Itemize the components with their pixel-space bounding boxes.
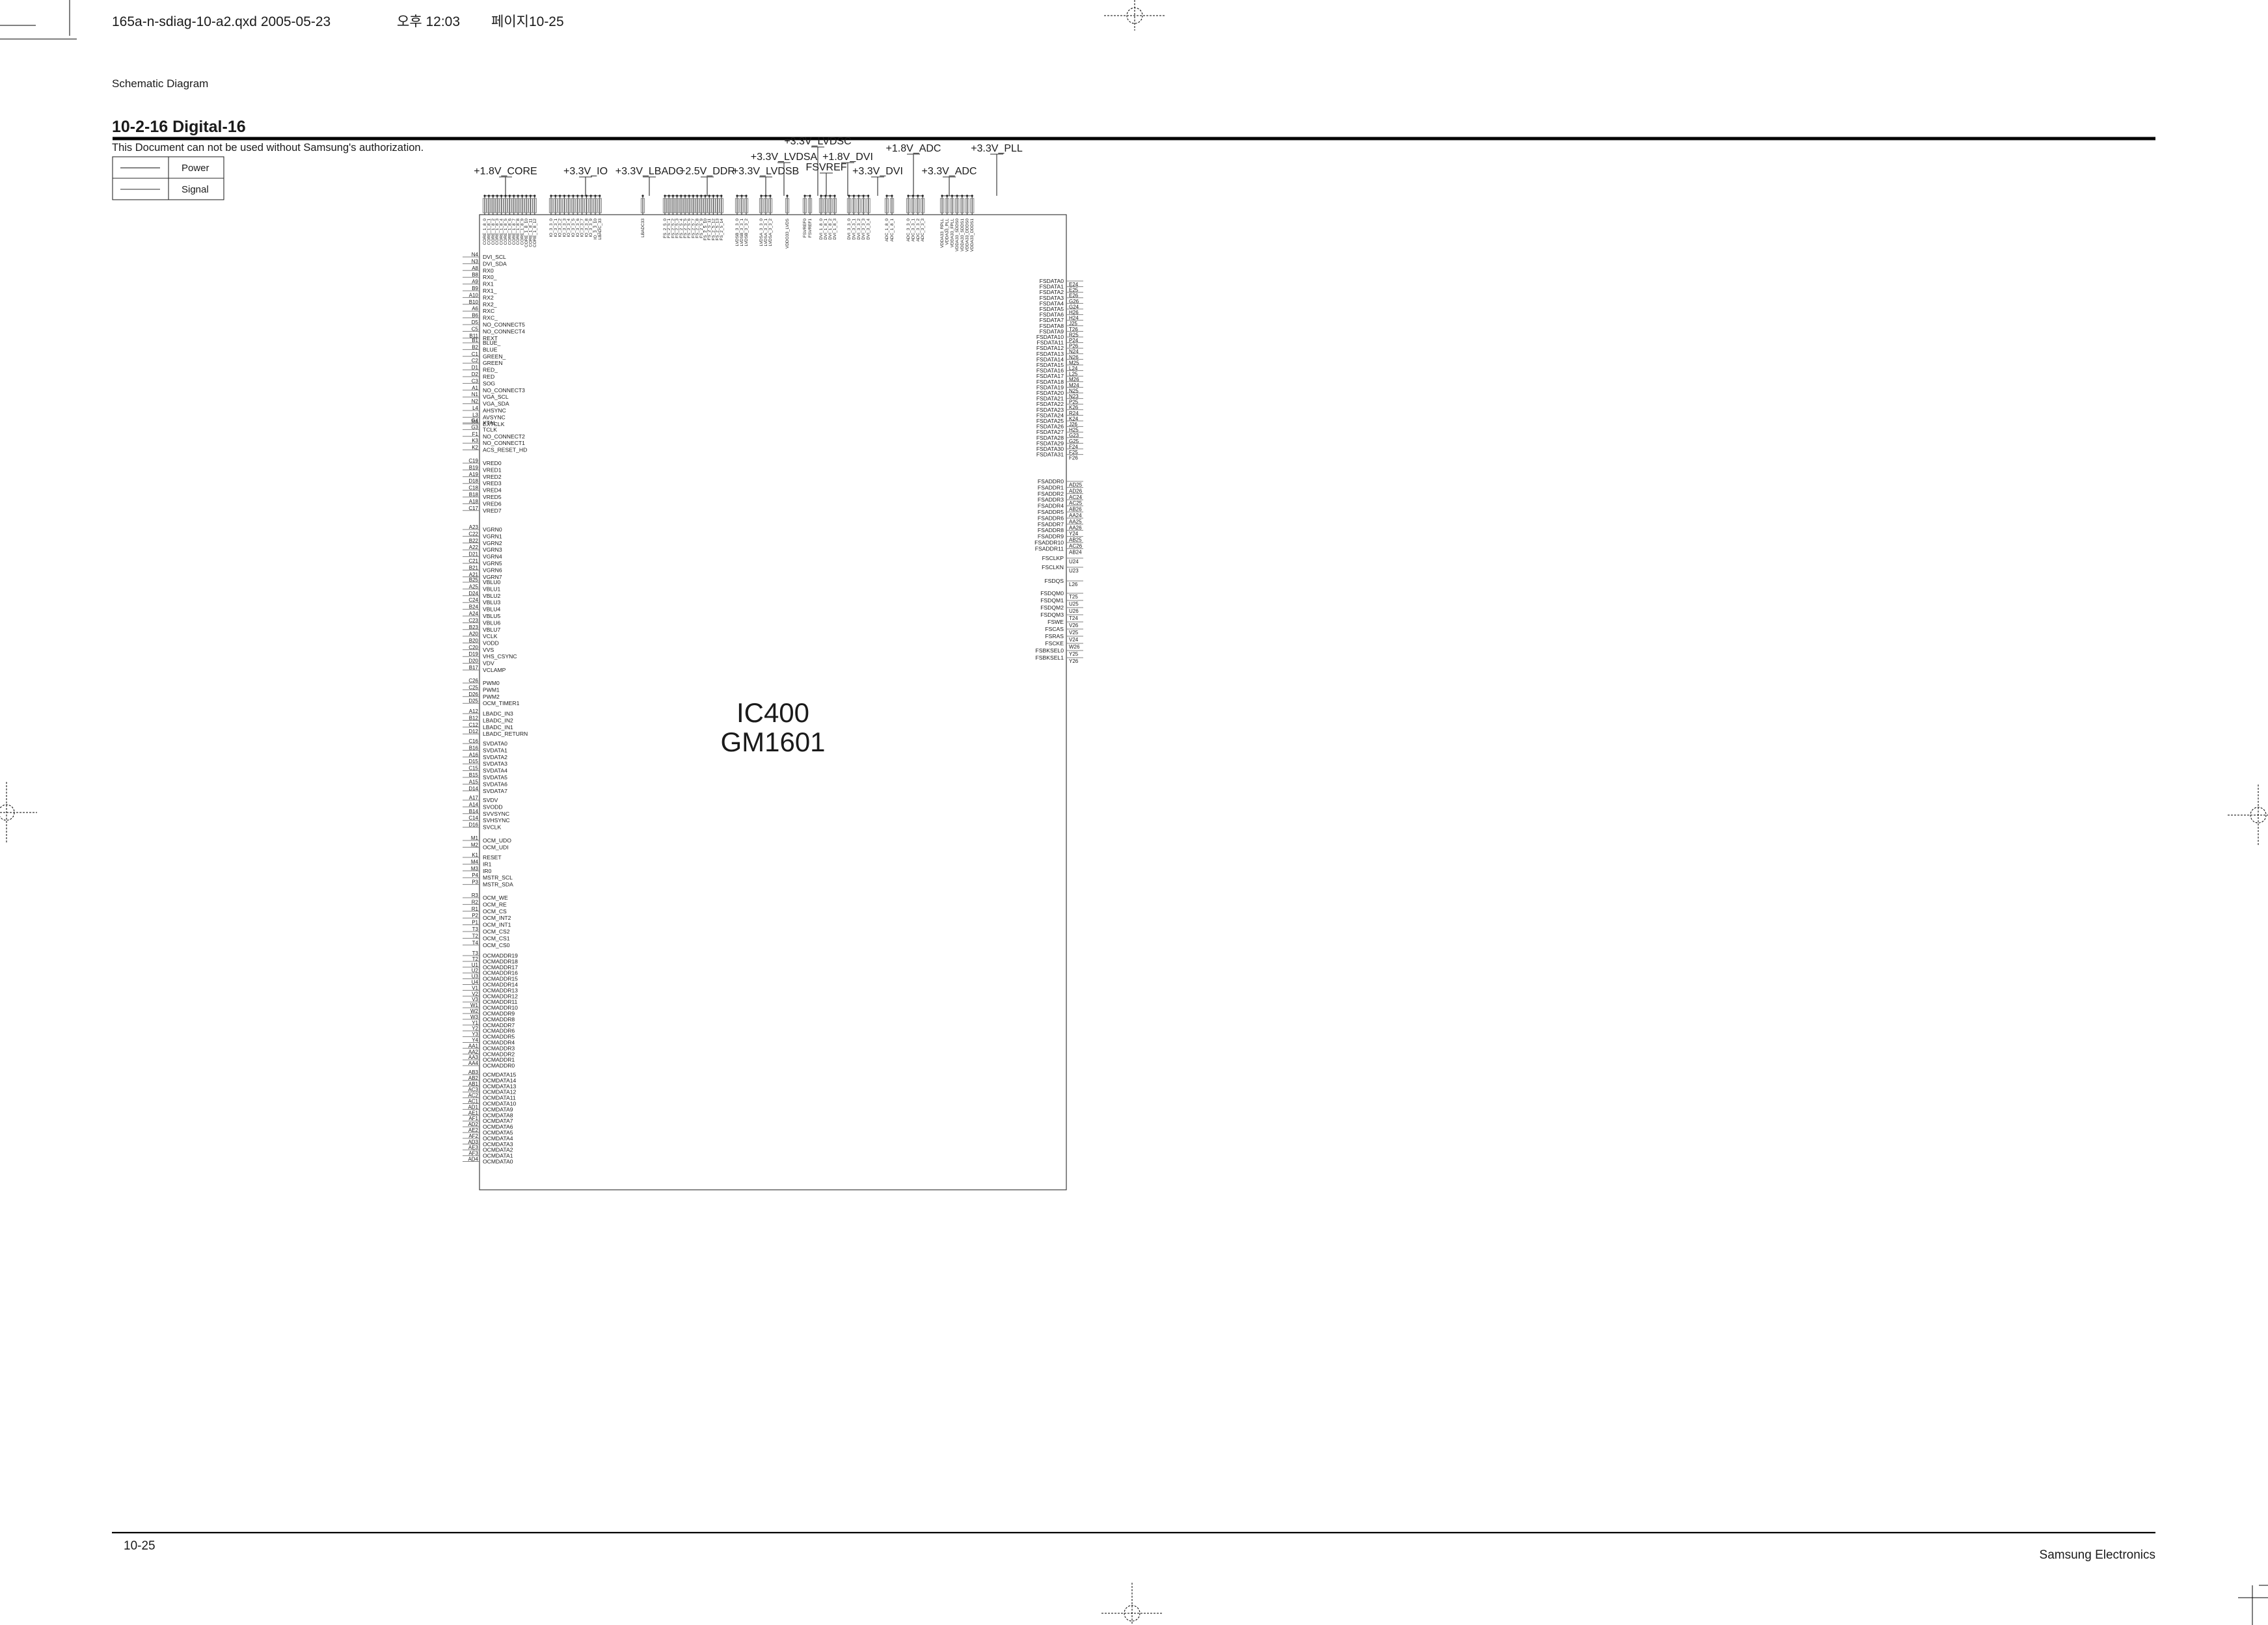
IC400 left-side pins: names + pin number boxes [463,252,528,1165]
svg-text:RX0_: RX0_ [483,274,497,280]
pin names for +2.5V_DDR group (rotated) [663,219,724,241]
op-amp U? main IC IC400 GM1601 body [479,215,1066,1190]
svg-text:FSBKSEL1: FSBKSEL1 [1036,654,1064,661]
svg-text:AA25: AA25 [1069,518,1082,524]
svg-text:V24: V24 [1069,637,1079,643]
svg-text:+1.8V_ADC: +1.8V_ADC [886,143,941,154]
svg-text:FSDQM1: FSDQM1 [1040,597,1064,604]
svg-text:RX2: RX2 [483,294,494,301]
svg-text:RED: RED [483,373,494,380]
power net +3.3V_DVI (top rail) [847,166,903,215]
svg-text:AC26: AC26 [1069,543,1083,549]
power net FSVREF (top rail) [803,162,846,215]
pin names for +3.3V_PLL group (rotated) [940,219,975,252]
svg-text:RESET: RESET [483,854,502,861]
svg-text:OCM_CS1: OCM_CS1 [483,935,510,941]
svg-text:IR1: IR1 [483,861,492,867]
svg-text:OCM_INT1: OCM_INT1 [483,922,511,928]
svg-text:LVDSB_3_3_1: LVDSB_3_3_1 [740,219,744,247]
svg-text:VBLU0: VBLU0 [483,579,500,585]
svg-text:LVDSA_3_3_2: LVDSA_3_3_2 [768,219,773,247]
svg-text:FSCAS: FSCAS [1045,626,1064,632]
svg-text:오후 12:03: 오후 12:03 [397,14,460,29]
svg-text:V26: V26 [1069,623,1079,628]
svg-text:+1.8V_CORE: +1.8V_CORE [474,166,537,177]
svg-text:FSCKE: FSCKE [1045,640,1064,647]
svg-text:OCM_CS0: OCM_CS0 [483,942,510,948]
svg-text:SVDV: SVDV [483,797,498,803]
svg-text:NO_CONNECT1: NO_CONNECT1 [483,440,525,446]
svg-text:ADC_1_8_0: ADC_1_8_0 [885,219,889,242]
svg-text:OCMADDR0: OCMADDR0 [483,1062,515,1069]
svg-text:TCLK: TCLK [483,426,497,433]
svg-text:XTAL: XTAL [483,420,496,426]
svg-text:DVI_1_8_2: DVI_1_8_2 [828,219,833,240]
svg-text:VDDA33_RPLL: VDDA33_RPLL [940,219,945,248]
svg-text:SVDATA7: SVDATA7 [483,788,507,794]
svg-text:FSWE: FSWE [1047,619,1064,625]
svg-text:RXC: RXC [483,308,494,314]
power net +3.3V_PLL (top rail) [940,143,1023,215]
power net +1.8V_ADC (top rail) [885,143,941,215]
svg-text:VGRN5: VGRN5 [483,560,502,567]
pin names for +3.3V_LBADC group (rotated) [641,219,645,237]
svg-text:GM1601: GM1601 [720,727,825,757]
svg-text:VRED7: VRED7 [483,507,502,514]
svg-text:L26: L26 [1069,582,1078,587]
svg-text:OCM_RE: OCM_RE [483,901,507,907]
svg-text:AD25: AD25 [1069,482,1083,488]
svg-text:VRED4: VRED4 [483,487,502,494]
svg-text:AHSYNC: AHSYNC [483,407,506,414]
svg-text:VBLU6: VBLU6 [483,619,500,626]
svg-text:+3.3V_LBADC: +3.3V_LBADC [615,166,684,177]
svg-text:OCM_UDI: OCM_UDI [483,844,509,850]
svg-text:VGA_SCL: VGA_SCL [483,394,509,400]
svg-text:AB24: AB24 [1069,549,1082,555]
power net +3.3V_LBADC (top rail) [615,166,684,215]
svg-text:+3.3V_LVDSA: +3.3V_LVDSA [751,152,818,163]
svg-text:VRED3: VRED3 [483,480,502,487]
svg-text:T24: T24 [1069,615,1078,621]
svg-text:ACS_RESET_HD: ACS_RESET_HD [483,447,527,453]
svg-text:VRED6: VRED6 [483,500,502,507]
svg-text:NO_CONNECT4: NO_CONNECT4 [483,328,525,334]
svg-text:RX2_: RX2_ [483,301,497,308]
svg-text:CORE_1_8_12: CORE_1_8_12 [533,219,537,247]
svg-text:FSRAS: FSRAS [1045,633,1064,639]
svg-text:VODD: VODD [483,639,499,646]
svg-text:VHS_CSYNC: VHS_CSYNC [483,653,517,660]
svg-text:PWM1: PWM1 [483,686,500,693]
svg-text:+3.3V_LVDSC: +3.3V_LVDSC [784,136,851,147]
power net +3.3V_LVDSA (top rail) [751,152,818,215]
svg-text:ADC_3_3_2: ADC_3_3_2 [916,219,921,242]
svg-text:OCMDATA0: OCMDATA0 [483,1159,513,1165]
svg-text:VRED1: VRED1 [483,466,502,473]
power net +3.3V_ADC (top rail) [906,166,977,215]
pin names for +3.3V_LVDSB group (rotated) [735,219,749,247]
pin names for +1.8V_DVI group (rotated) [819,219,837,240]
svg-text:PWM2: PWM2 [483,693,500,700]
svg-text:VRED5: VRED5 [483,494,502,500]
svg-text:LBADC33: LBADC33 [641,219,645,237]
svg-text:FSADDR11: FSADDR11 [1035,545,1064,552]
svg-text:+3.3V_DVI: +3.3V_DVI [852,166,903,177]
svg-text:W26: W26 [1069,644,1080,650]
svg-text:Signal: Signal [182,184,209,195]
svg-text:Samsung Electronics: Samsung Electronics [2040,1548,2155,1562]
svg-text:U23: U23 [1069,568,1079,574]
svg-text:VBLU1: VBLU1 [483,585,500,592]
svg-text:AC24: AC24 [1069,494,1083,500]
crop mark top-center [1104,0,1165,31]
svg-text:GREEN_: GREEN_ [483,353,506,360]
power net +1.8V_CORE (top rail) [474,166,537,215]
svg-text:U24: U24 [1069,559,1079,565]
svg-text:SVDATA6: SVDATA6 [483,781,507,787]
svg-text:VVS: VVS [483,647,494,653]
svg-text:RXC_: RXC_ [483,315,498,321]
svg-text:DVI_1_8_0: DVI_1_8_0 [819,219,824,240]
svg-text:OCM_WE: OCM_WE [483,894,508,901]
svg-text:VGRN4: VGRN4 [483,554,502,560]
svg-text:AB26: AB26 [1069,507,1082,513]
svg-text:10-25: 10-25 [124,1539,155,1553]
svg-text:LVDSA_3_3_1: LVDSA_3_3_1 [764,219,768,247]
crop mark top-left [0,0,77,39]
svg-text:AA26: AA26 [1069,525,1082,531]
crop mark bottom-right [2238,1585,2268,1625]
svg-text:FSDQS: FSDQS [1044,578,1064,584]
svg-text:VGRN0: VGRN0 [483,526,502,533]
svg-text:T25: T25 [1069,594,1078,600]
svg-text:DVI_3_3_2: DVI_3_3_2 [857,219,861,240]
svg-text:FSDQM0: FSDQM0 [1040,590,1064,597]
svg-text:LBADC_IN2: LBADC_IN2 [483,717,513,723]
svg-text:U25: U25 [1069,601,1079,607]
pin names for +3.3V_DVI group (rotated) [847,219,871,240]
svg-text:SOG: SOG [483,380,495,386]
power net +2.5V_DDR (top rail) [663,166,735,215]
svg-text:RX0: RX0 [483,267,494,274]
svg-text:F26: F26 [1069,455,1078,461]
svg-text:This Document can not be used: This Document can not be used without Sa… [112,142,424,154]
svg-text:FSDQM2: FSDQM2 [1040,604,1064,611]
svg-text:V25: V25 [1069,630,1079,636]
svg-text:DVI_3_3_4: DVI_3_3_4 [867,219,871,240]
svg-text:DVI_3_3_3: DVI_3_3_3 [861,219,866,240]
svg-text:VBLU4: VBLU4 [483,606,500,613]
svg-text:LBADC_IN1: LBADC_IN1 [483,724,513,731]
svg-text:SVDATA3: SVDATA3 [483,760,507,767]
svg-text:Y26: Y26 [1069,658,1079,664]
svg-text:IR0: IR0 [483,868,492,874]
svg-text:Y25: Y25 [1069,651,1079,657]
crop mark right-center [2228,785,2268,846]
pin names for +3.3V_IO group (rotated) [549,219,602,240]
svg-text:SVHSYNC: SVHSYNC [483,817,510,824]
power net +3.3V_IO (top rail) [549,166,608,215]
svg-text:RX1: RX1 [483,281,494,288]
svg-text:VGRN2: VGRN2 [483,540,502,546]
svg-text:ADC_3_3_3: ADC_3_3_3 [921,219,925,242]
svg-text:+3.3V_ADC: +3.3V_ADC [922,166,977,177]
svg-text:VDDA33_SDDS0: VDDA33_SDDS0 [955,219,960,252]
svg-text:Y24: Y24 [1069,531,1079,537]
svg-text:LBADC_IN3: LBADC_IN3 [483,710,513,717]
svg-text:AC25: AC25 [1069,500,1083,506]
svg-text:IC400: IC400 [736,697,809,728]
svg-text:Power: Power [182,163,209,174]
svg-text:GREEN: GREEN [483,360,503,366]
svg-text:VGRN1: VGRN1 [483,533,502,539]
svg-text:NO_CONNECT5: NO_CONNECT5 [483,321,525,328]
svg-text:DVI_1_8_1: DVI_1_8_1 [824,219,828,240]
svg-text:SVDATA5: SVDATA5 [483,774,507,781]
svg-text:NO_CONNECT3: NO_CONNECT3 [483,387,525,394]
IC400 right-side pins: FSADDR0-11 [1034,478,1083,555]
legend box power/signal [113,157,224,200]
svg-text:VDDA33_DDDS0: VDDA33_DDDS0 [965,219,970,252]
svg-text:+1.8V_DVI: +1.8V_DVI [822,152,873,163]
svg-text:SVDATA0: SVDATA0 [483,740,507,747]
svg-text:MSTR_SDA: MSTR_SDA [483,881,513,888]
crop mark left-center [0,782,37,843]
svg-text:LVDSB_3_3_2: LVDSB_3_3_2 [744,219,749,247]
svg-text:RX1_: RX1_ [483,288,497,294]
pin names for FSVREF group (rotated) [803,219,813,238]
svg-text:VBLU5: VBLU5 [483,613,500,619]
svg-text:VDDA33_SDDS1: VDDA33_SDDS1 [960,219,965,252]
svg-text:SVDATA4: SVDATA4 [483,768,507,774]
svg-text:VBLU7: VBLU7 [483,626,500,633]
power net +3.3V_LVDSB (top rail) [733,166,799,215]
svg-text:FSBKSEL0: FSBKSEL0 [1036,647,1064,654]
svg-text:VCLK: VCLK [483,633,498,639]
svg-text:165a-n-sdiag-10-a2.qxd 2005-0: 165a-n-sdiag-10-a2.qxd 2005-05-23 [112,14,331,29]
svg-text:DVI_SDA: DVI_SDA [483,260,507,267]
svg-text:FSVREF0: FSVREF0 [803,219,807,238]
svg-text:VDDO33_LVDS: VDDO33_LVDS [785,218,790,248]
svg-text:VBLU2: VBLU2 [483,593,500,599]
footer rule [112,1532,2155,1533]
svg-text:AB25: AB25 [1069,537,1082,543]
svg-text:+3.3V_PLL: +3.3V_PLL [971,143,1023,154]
svg-text:SVODD: SVODD [483,803,503,810]
svg-text:LBADC_RETURN: LBADC_RETURN [483,731,528,737]
crop mark bottom-center [1101,1583,1163,1625]
svg-text:MSTR_SCL: MSTR_SCL [483,874,513,881]
svg-text:SVDATA2: SVDATA2 [483,754,507,760]
svg-text:DVI_SCL: DVI_SCL [483,254,506,260]
svg-text:VGA_SDA: VGA_SDA [483,401,509,407]
svg-text:페이지10-25: 페이지10-25 [491,14,564,29]
svg-text:BLUE_: BLUE_ [483,340,500,346]
svg-text:U26: U26 [1069,608,1079,614]
svg-text:DVI_1_8_3: DVI_1_8_3 [833,219,837,240]
svg-text:10-2-16 Digital-16: 10-2-16 Digital-16 [112,118,246,136]
IC400 right-side pins: FSDATA0-31 [1036,278,1083,461]
svg-text:VGRN3: VGRN3 [483,546,502,553]
pin names for +3.3V_ADC group (rotated) [906,219,925,242]
pin names for +3.3V_LVDSC group (rotated) [785,218,790,248]
svg-text:+2.5V_DDR: +2.5V_DDR [679,166,735,177]
svg-text:DVI_3_3_1: DVI_3_3_1 [852,219,856,240]
svg-text:VDDA33_DDDS1: VDDA33_DDDS1 [970,219,975,252]
pin names for +3.3V_LVDSA group (rotated) [759,219,773,247]
svg-text:FSVREF: FSVREF [805,162,846,173]
pin names for +1.8V_CORE group (rotated) [483,219,537,247]
svg-text:AA24: AA24 [1069,513,1082,518]
svg-text:BLUE: BLUE [483,346,498,353]
svg-text:LBADC_33: LBADC_33 [598,219,602,240]
svg-text:FSDATA31: FSDATA31 [1036,451,1064,458]
svg-text:NO_CONNECT2: NO_CONNECT2 [483,433,525,440]
svg-text:AD26: AD26 [1069,488,1083,494]
svg-text:LVDSB_3_3_0: LVDSB_3_3_0 [735,219,740,247]
svg-text:ADC_1_8_1: ADC_1_8_1 [890,219,895,242]
svg-text:ADC_3_3_1: ADC_3_3_1 [911,219,915,242]
svg-text:FSDQM3: FSDQM3 [1040,611,1064,618]
svg-text:OCM_UDO: OCM_UDO [483,837,511,844]
svg-text:VBLU3: VBLU3 [483,599,500,606]
svg-text:DVI_3_3_0: DVI_3_3_0 [847,219,852,240]
svg-text:OCM_TIMER1: OCM_TIMER1 [483,700,520,706]
svg-text:LVDSA_3_3_0: LVDSA_3_3_0 [759,219,764,247]
svg-text:VRED0: VRED0 [483,460,502,466]
svg-text:+3.3V_LVDSB: +3.3V_LVDSB [733,166,799,177]
svg-text:PWM0: PWM0 [483,680,500,686]
svg-text:VDV: VDV [483,660,494,667]
title rule [113,137,2155,141]
svg-text:VDDA33_PLL: VDDA33_PLL [945,219,950,245]
svg-text:FSVREF1: FSVREF1 [808,219,813,238]
svg-text:SVVSYNC: SVVSYNC [483,811,509,817]
svg-text:OCM_INT2: OCM_INT2 [483,915,511,921]
svg-text:RED_: RED_ [483,367,498,373]
svg-text:Schematic Diagram: Schematic Diagram [112,77,208,90]
svg-text:VGRN6: VGRN6 [483,567,502,573]
svg-text:FSCLKP: FSCLKP [1042,555,1064,561]
power net +1.8V_DVI (top rail) [819,152,873,215]
svg-text:FSCLKN: FSCLKN [1042,564,1064,571]
svg-text:OCM_CS2: OCM_CS2 [483,928,510,935]
svg-text:VCLAMP: VCLAMP [483,667,506,673]
svg-text:OCM_CS: OCM_CS [483,908,507,915]
IC400 right-side pins: clocks and control [1036,555,1083,664]
svg-text:SVDATA1: SVDATA1 [483,747,507,753]
svg-text:VRED2: VRED2 [483,474,502,480]
svg-text:VDDA33_FPLL: VDDA33_FPLL [950,219,954,248]
pin names for +1.8V_ADC group (rotated) [885,219,895,242]
svg-text:ADC_3_3_0: ADC_3_3_0 [906,219,911,242]
svg-text:+3.3V_IO: +3.3V_IO [563,166,608,177]
power net +3.3V_LVDSC (top rail) [784,136,851,215]
svg-text:FS_2_5_14: FS_2_5_14 [720,219,724,241]
svg-text:SVCLK: SVCLK [483,824,501,831]
